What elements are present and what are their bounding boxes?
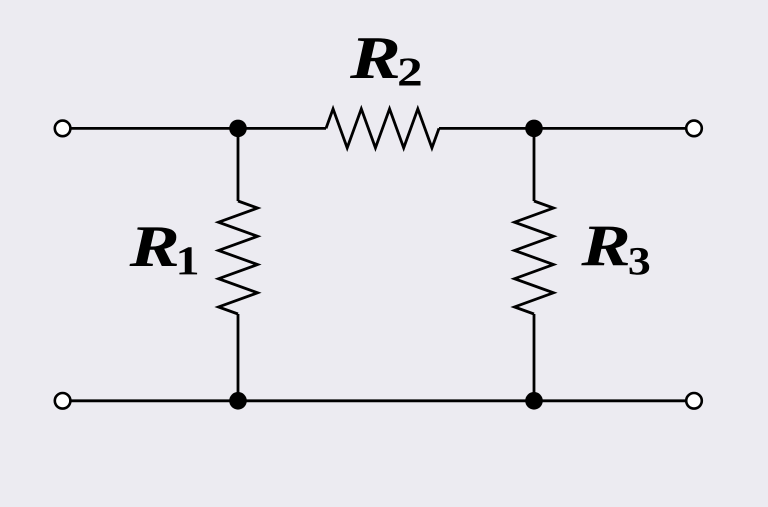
wire left vertical upper xyxy=(237,128,240,201)
wire top-left segment xyxy=(71,127,327,130)
wire top-right segment xyxy=(439,127,686,130)
terminal top-left xyxy=(55,121,71,137)
node junction bottom-left xyxy=(229,392,247,410)
terminal top-right xyxy=(686,121,702,137)
resistor R1 xyxy=(219,201,258,314)
node junction bottom-right xyxy=(525,392,543,410)
terminal bottom-left xyxy=(55,393,71,409)
wire left vertical lower xyxy=(237,314,240,401)
label R2 xyxy=(350,38,421,85)
wire right vertical upper xyxy=(533,128,536,201)
label R3 xyxy=(581,227,649,275)
wire right vertical lower xyxy=(533,314,536,401)
resistor R2 xyxy=(326,109,439,148)
wire bottom xyxy=(71,399,687,402)
node junction top-left xyxy=(229,120,247,138)
resistor R3 xyxy=(515,201,554,314)
node junction top-right xyxy=(525,120,543,138)
label R1 xyxy=(130,227,198,274)
terminal bottom-right xyxy=(686,393,702,409)
